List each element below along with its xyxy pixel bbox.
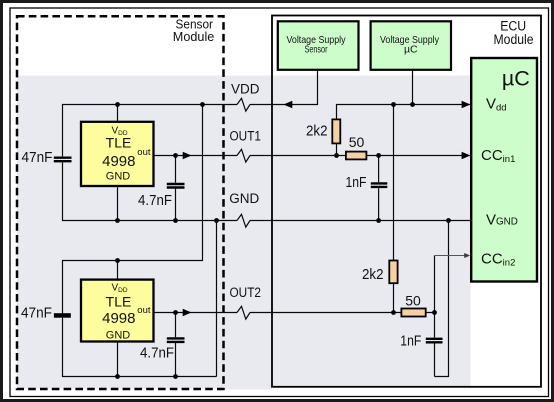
transistor Q2: TLE 4998 sensor IC #2	[81, 280, 154, 342]
svg-text:Module: Module	[494, 32, 534, 47]
arrow right on OUT2 (sensor)	[183, 309, 192, 316]
arrow into uC Vdd	[462, 101, 471, 108]
svg-text:47nF: 47nF	[22, 150, 53, 166]
arrow left on VDD	[284, 101, 293, 108]
junction: 2k2 R3 bottom on OUT2	[391, 310, 396, 315]
capacitor 4.7nF C4 plates	[167, 338, 185, 342]
resistor 50 R4	[401, 309, 425, 317]
junction: VDD rail to TLE2 drop	[200, 102, 205, 107]
svg-text:2k2: 2k2	[362, 267, 384, 283]
svg-text:47nF: 47nF	[21, 306, 52, 322]
wire: VDD rail sensor (47nF top to corner, to supply drop)	[63, 70, 318, 156]
junction: 1nF C5 branch on OUT1	[376, 153, 381, 158]
junction: 2k2 R3 pull-up branch on VDD	[391, 102, 396, 107]
arrow into uC CCin1	[462, 152, 471, 159]
capacitor 47nF C1 plates	[54, 158, 72, 162]
wire: OUT1 line	[154, 155, 470, 157]
junction: 1nF C5 bottom on GND	[376, 218, 381, 223]
svg-text:GND: GND	[106, 330, 131, 342]
wire: GND drop to bottom half	[216, 221, 218, 377]
svg-text:2k2: 2k2	[306, 124, 328, 140]
svg-text:1nF: 1nF	[400, 333, 421, 349]
wire: VDD drop to TLE2 rail	[63, 105, 203, 316]
junction: TLE2 GND pin on bottom rail	[115, 374, 120, 379]
squiggle GND	[237, 214, 250, 227]
svg-text:Sensor: Sensor	[305, 44, 328, 56]
sensor module dashed box	[17, 16, 224, 389]
svg-text:VDD: VDD	[231, 82, 260, 97]
capacitor 1nF C6 plates	[426, 339, 443, 343]
wire: GND line	[63, 162, 472, 220]
svg-text:GND: GND	[229, 191, 259, 206]
wire: 1nF#1 branch	[378, 156, 380, 221]
arrow into uC CCin2 (thin)	[464, 253, 470, 258]
wire: uC supply drop	[412, 70, 414, 105]
junction: GND rail drop to bottom half	[214, 218, 219, 223]
wire: CCin2 stub	[434, 256, 436, 313]
voltage supply uC box	[371, 21, 451, 70]
arrow right on OUT1 (sensor)	[183, 152, 192, 159]
junction: 4.7nF C4 bottom on bottom rail	[173, 374, 178, 379]
svg-text:Module: Module	[173, 29, 215, 44]
resistor 2k2 R3	[389, 261, 397, 284]
svg-text:OUT1: OUT1	[230, 128, 262, 143]
capacitor 47nF C2 plates	[54, 313, 71, 318]
svg-text:4998: 4998	[102, 153, 135, 170]
svg-text:4998: 4998	[102, 310, 135, 327]
svg-text:4.7nF: 4.7nF	[138, 193, 172, 209]
wire: 4.7nF#2 branch	[175, 313, 177, 377]
sensor module gray fill	[17, 76, 223, 389]
junction: TLE1 GND pin on GND rail	[115, 218, 120, 223]
svg-text:µC: µC	[404, 44, 418, 56]
op-amp U1: microcontroller uC box	[471, 58, 537, 282]
wire: OUT2 line	[154, 312, 435, 314]
junction: 4.7nF C4 branch on OUT2	[173, 310, 178, 315]
wire: pull-up line B (VDD to 2k2#2 to OUT2)	[393, 105, 395, 313]
wire: TLE1 pins	[117, 105, 119, 221]
wire: VDD right segment (2k2 top to uC Vdd)	[337, 105, 470, 120]
capacitor 4.7nF C3 plates	[167, 184, 185, 188]
svg-text:1nF: 1nF	[346, 175, 367, 191]
junction: uC supply drop on VDD	[410, 102, 415, 107]
resistor 2k2 R1	[332, 119, 340, 143]
junction: TLE1 VDD pin on VDD rail	[115, 102, 120, 107]
wire: 1nF#2 bottom return to GND	[435, 221, 449, 377]
squiggle VDD	[237, 98, 250, 111]
wire: 1nF#2 branch	[434, 313, 436, 377]
capacitor 1nF C5 plates	[371, 183, 388, 187]
resistor 50 R2	[346, 152, 367, 160]
svg-text:GND: GND	[106, 171, 131, 183]
squiggle OUT2	[237, 306, 250, 319]
wire: 47nF#2 bottom to rail2	[63, 317, 217, 377]
svg-text:TLE: TLE	[106, 135, 132, 151]
svg-text:OUT2: OUT2	[230, 285, 262, 300]
junction: 1nF C6 branch on OUT2	[432, 310, 437, 315]
junction: 2k2 R1 bottom on OUT1	[334, 153, 339, 158]
junction: CCin2 return branch on GND	[446, 218, 451, 223]
wire: 4.7nF#1 branch	[175, 156, 177, 221]
svg-text:out: out	[137, 147, 151, 158]
svg-text:µC: µC	[502, 66, 530, 90]
junction: 4.7nF C3 branch on OUT1	[173, 153, 178, 158]
junction: TLE2 VDD pin on rail	[115, 258, 120, 263]
squiggle OUT1	[237, 149, 250, 162]
svg-text:50: 50	[405, 293, 421, 309]
voltage supply sensor box	[278, 21, 359, 70]
transistor Q1: TLE 4998 sensor IC #1	[81, 122, 154, 186]
gray strip between modules	[223, 76, 272, 390]
svg-text:4.7nF: 4.7nF	[140, 345, 174, 361]
wire: 2k2#1 bottom to OUT1	[336, 144, 338, 156]
svg-text:out: out	[137, 305, 151, 316]
ECU module box	[272, 16, 541, 387]
junction: 4.7nF C3 bottom on GND rail	[173, 218, 178, 223]
wire: TLE2 pins	[117, 261, 119, 377]
svg-text:TLE: TLE	[106, 294, 132, 310]
ECU module gray fill	[273, 76, 471, 387]
svg-text:50: 50	[349, 134, 365, 150]
